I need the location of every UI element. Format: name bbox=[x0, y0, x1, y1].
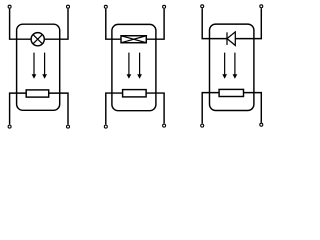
light arrow (left) inside U1 bbox=[32, 53, 37, 79]
optocoupler U1 (lamp + photoresistor) bbox=[8, 5, 69, 128]
light arrow (left) inside U3 bbox=[222, 53, 227, 79]
U3 pin 3 terminal bbox=[201, 124, 204, 127]
lamp LA1 bbox=[31, 33, 44, 46]
U3 body outline bbox=[210, 24, 254, 110]
U2 pin 2 terminal bbox=[163, 5, 166, 8]
U1 pin 2 terminal bbox=[67, 5, 70, 8]
photoresistor R1 bbox=[26, 90, 49, 97]
optocoupler U2 (electroluminescent panel + photoresistor) bbox=[104, 5, 165, 128]
U2 pin 3 terminal bbox=[104, 125, 107, 128]
electroluminescent panel EL1 bbox=[121, 36, 146, 43]
wire: U2 pin 1 to panel bbox=[106, 9, 121, 39]
U1 pin 1 terminal bbox=[8, 5, 11, 8]
light arrow (right) inside U3 bbox=[233, 53, 238, 79]
wire: photoresistor to U1 pin 4 bbox=[49, 93, 68, 124]
LED D1 cathode bar bbox=[226, 32, 228, 45]
U1 body outline bbox=[17, 24, 60, 110]
light arrow (right) inside U1 bbox=[42, 53, 47, 79]
U3 pin 2 terminal bbox=[260, 5, 263, 8]
U3 pin 1 terminal bbox=[201, 5, 204, 8]
U1 pin 3 terminal bbox=[8, 125, 11, 128]
wire: U1 pin 1 to lamp bbox=[10, 9, 32, 39]
U2 body outline bbox=[112, 24, 156, 110]
photoresistor R2 bbox=[123, 90, 147, 97]
LED D1 triangle bbox=[227, 32, 235, 46]
wire: U2 pin 3 to photoresistor bbox=[106, 93, 123, 124]
light arrow (right) inside U2 bbox=[137, 53, 142, 79]
wire: lamp to U1 pin 2 bbox=[44, 9, 68, 39]
photoresistor R3 bbox=[219, 89, 243, 96]
wire: photoresistor to U3 pin 4 bbox=[244, 93, 262, 123]
U1 pin 4 terminal bbox=[67, 125, 70, 128]
wire: U3 pin 3 to photoresistor bbox=[202, 93, 219, 124]
wire: U1 pin 3 to photoresistor bbox=[10, 93, 27, 124]
optocoupler U3 (LED + photoresistor) bbox=[201, 5, 263, 127]
U3 pin 4 terminal bbox=[260, 123, 263, 126]
wire: panel to U2 pin 2 bbox=[146, 9, 164, 39]
wire: U3 pin 1 to LED cathode bbox=[202, 8, 227, 38]
wire: LED anode to U3 pin 2 bbox=[235, 8, 261, 38]
light arrow (left) inside U2 bbox=[127, 53, 132, 79]
U2 pin 4 terminal bbox=[163, 124, 166, 127]
U2 pin 1 terminal bbox=[104, 5, 107, 8]
wire: photoresistor to U2 pin 4 bbox=[146, 93, 164, 123]
